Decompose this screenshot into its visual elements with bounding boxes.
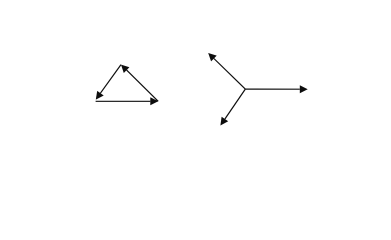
wire vector triangle left edge <box>100 65 121 94</box>
wire arrowhead bottom-left <box>96 91 104 100</box>
wire concurrent vector right <box>245 88 299 90</box>
wire arrowhead down-left <box>220 117 228 126</box>
wire vector triangle right edge <box>127 70 159 101</box>
wire arrowhead up-left <box>208 53 217 61</box>
wire concurrent vector down-left <box>225 89 245 119</box>
wire arrowhead bottom-right <box>150 97 158 105</box>
wire vector triangle bottom edge <box>96 100 151 102</box>
wire concurrent vector up-left <box>214 59 245 90</box>
wire arrowhead apex <box>121 65 129 73</box>
wire arrowhead right <box>300 85 308 93</box>
